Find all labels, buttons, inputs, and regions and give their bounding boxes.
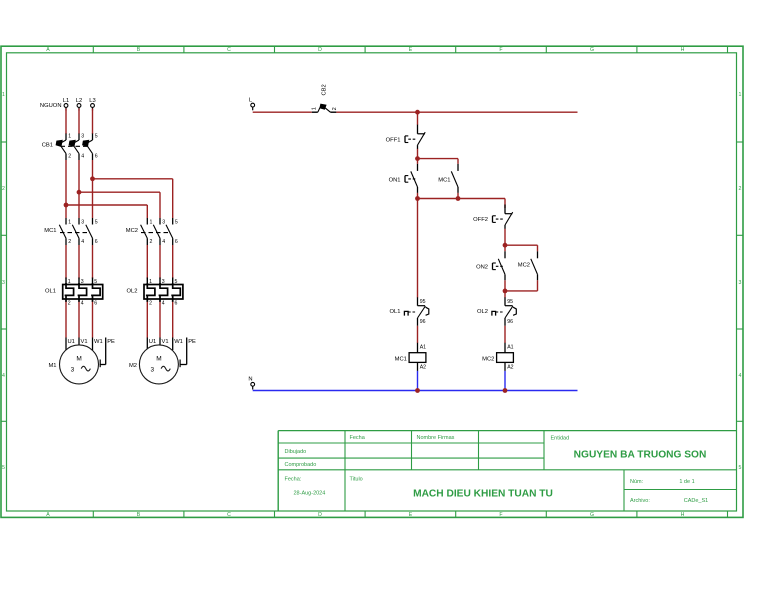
svg-text:5: 5 <box>739 465 742 471</box>
svg-text:MC2: MC2 <box>126 228 138 234</box>
wire L1 terminal to CB1 pin1 <box>65 109 67 135</box>
junction node N at coil MC2 <box>503 388 508 393</box>
contactor MC2 main contacts <box>126 218 178 245</box>
wire MC2 pin2 to OL2 pin1 <box>146 245 148 279</box>
svg-text:PE: PE <box>107 339 115 345</box>
svg-text:3: 3 <box>739 280 742 286</box>
svg-text:CB1: CB1 <box>42 143 53 149</box>
svg-text:1: 1 <box>2 92 5 98</box>
wire OFF1 to node A <box>417 149 419 159</box>
svg-text:W1: W1 <box>94 339 103 345</box>
junction node N at coil MC1 <box>415 388 420 393</box>
svg-text:PE: PE <box>188 339 196 345</box>
wire OL1 pin6 to motor M1 terminal <box>92 302 94 338</box>
svg-text:U1: U1 <box>68 339 75 345</box>
node C junction <box>503 243 508 248</box>
svg-text:2: 2 <box>2 186 5 192</box>
wire MC1 aux to node B rail <box>457 193 459 199</box>
svg-text:MACH DIEU KHIEN TUAN TU: MACH DIEU KHIEN TUAN TU <box>413 489 553 500</box>
svg-text:OL2: OL2 <box>477 309 488 315</box>
frame row numbers right band <box>739 92 742 471</box>
svg-text:5: 5 <box>175 220 178 226</box>
wire OL1 pin4 to motor M1 terminal <box>78 302 80 338</box>
node B junction at MC1 aux <box>456 196 461 201</box>
svg-text:5: 5 <box>2 465 5 471</box>
svg-text:4: 4 <box>739 373 742 379</box>
svg-text:A1: A1 <box>420 345 426 351</box>
motor M1 terminal stubs U1 V1 W1 <box>66 338 103 351</box>
drawing frame outer border <box>1 46 743 517</box>
auxiliary contact MC2 (NO holding) <box>518 251 538 280</box>
svg-text:F: F <box>499 47 502 53</box>
wire MC2 aux to node D <box>505 280 538 291</box>
wire MC2 pin6 to OL2 pin5 <box>172 245 174 279</box>
svg-text:OL2: OL2 <box>127 289 138 295</box>
wire OL2 pin4 to motor M2 terminal <box>159 302 161 338</box>
svg-text:M1: M1 <box>48 363 56 369</box>
svg-text:96: 96 <box>420 319 426 325</box>
svg-text:Fecha:: Fecha: <box>285 476 302 482</box>
title block label Titulo <box>350 476 363 482</box>
wire MC1 pin6 to OL1 pin5 <box>92 245 94 279</box>
frame column tick marks <box>93 46 727 517</box>
pushbutton OFF2 (NC) <box>473 205 513 229</box>
frame row numbers left band <box>2 92 5 471</box>
svg-text:E: E <box>409 512 413 518</box>
svg-text:L3: L3 <box>89 98 95 104</box>
motor M2 terminal stubs U1 V1 W1 <box>147 338 183 351</box>
svg-text:3: 3 <box>81 134 84 140</box>
motor M1 (3-phase) <box>48 345 98 384</box>
svg-text:6: 6 <box>94 300 97 306</box>
svg-text:OL1: OL1 <box>390 309 401 315</box>
svg-text:96: 96 <box>507 319 513 325</box>
wire OL2 pin2 to motor M2 terminal <box>146 302 148 338</box>
wire OL1 96 to coil MC1 A1 <box>417 326 419 343</box>
svg-text:1: 1 <box>68 134 71 140</box>
svg-text:4: 4 <box>81 239 84 245</box>
pushbutton ON2 (NO) <box>476 245 505 280</box>
thermal contact OL2 (NC) pins 95 96 <box>477 297 516 326</box>
svg-text:V1: V1 <box>81 339 88 345</box>
svg-text:G: G <box>590 47 594 53</box>
motor M2 (3-phase) <box>129 345 178 384</box>
svg-text:5: 5 <box>95 220 98 226</box>
wire CB1 pin4 down to MC1 pin3 <box>78 160 80 218</box>
svg-text:2: 2 <box>68 154 71 160</box>
svg-text:A: A <box>46 47 50 53</box>
wire L3 terminal to CB1 pin5 <box>92 109 94 135</box>
junction node L2 tap <box>77 190 82 195</box>
pushbutton ON1 (NO) <box>389 159 418 193</box>
svg-text:OFF1: OFF1 <box>386 137 401 143</box>
title block title MACH DIEU KHIEN TUAN TU <box>413 489 553 500</box>
overload relay OL2 <box>127 278 183 307</box>
svg-text:CB2: CB2 <box>322 84 328 95</box>
svg-text:Entidad: Entidad <box>551 435 570 441</box>
svg-text:OL1: OL1 <box>45 289 56 295</box>
svg-text:NGUON: NGUON <box>40 103 62 109</box>
frame row tick marks <box>1 142 743 421</box>
svg-text:4: 4 <box>2 373 5 379</box>
svg-text:3: 3 <box>71 367 75 374</box>
svg-text:D: D <box>318 47 322 53</box>
wire node B rail down to OFF2 <box>504 199 506 209</box>
wire node C to MC2 aux branch <box>505 245 538 251</box>
svg-text:MC1: MC1 <box>395 357 407 363</box>
svg-text:2: 2 <box>332 107 338 110</box>
svg-text:N: N <box>248 377 252 383</box>
svg-text:W1: W1 <box>174 339 183 345</box>
svg-text:1: 1 <box>739 92 742 98</box>
svg-text:L2: L2 <box>76 98 82 104</box>
junction node L3 tap <box>90 176 95 181</box>
svg-text:6: 6 <box>95 154 98 160</box>
svg-text:2: 2 <box>68 300 71 306</box>
wire MC1 pin2 to OL1 pin1 <box>65 245 67 279</box>
wire L2 terminal to CB1 pin3 <box>78 109 80 135</box>
title block file CADe_S1 <box>684 498 708 504</box>
wire MC1 pin4 to OL1 pin3 <box>78 245 80 279</box>
svg-text:3: 3 <box>81 220 84 226</box>
svg-text:A2: A2 <box>420 365 426 371</box>
svg-text:C: C <box>227 512 231 518</box>
coil MC1 pins A1 A2 <box>395 343 427 371</box>
svg-text:F: F <box>499 512 502 518</box>
svg-text:V1: V1 <box>162 339 169 345</box>
wire MC2 pin4 to OL2 pin3 <box>159 245 161 279</box>
terminal L1 <box>63 98 69 111</box>
title block sheet 1 de 1 <box>679 479 694 485</box>
svg-text:Archivo:: Archivo: <box>630 498 650 504</box>
svg-text:1: 1 <box>150 220 153 226</box>
svg-text:B: B <box>137 512 141 518</box>
coil MC2 pins A1 A2 <box>482 343 514 371</box>
terminal NGUON label <box>40 103 62 109</box>
svg-text:Comprobado: Comprobado <box>285 462 317 468</box>
svg-text:2: 2 <box>149 300 152 306</box>
svg-text:5: 5 <box>95 134 98 140</box>
svg-text:G: G <box>590 512 594 518</box>
wire CB1 pin6 down to MC1 pin5 <box>92 160 94 218</box>
svg-text:ON1: ON1 <box>389 177 401 183</box>
frame column letters top band <box>46 47 684 53</box>
drawing frame inner border <box>7 53 737 511</box>
svg-text:2: 2 <box>150 239 153 245</box>
wire coil MC1 A2 to N line <box>417 371 419 391</box>
svg-text:D: D <box>318 512 322 518</box>
svg-text:A1: A1 <box>507 345 513 351</box>
svg-text:A2: A2 <box>507 365 513 371</box>
junction node on L line <box>415 110 420 115</box>
wire coil MC2 A2 to N line <box>504 371 506 391</box>
svg-text:1: 1 <box>312 107 318 110</box>
frame column letters bottom band <box>46 512 684 518</box>
svg-text:ON2: ON2 <box>476 265 488 271</box>
svg-text:C: C <box>227 47 231 53</box>
svg-text:H: H <box>681 512 685 518</box>
wire OFF2 to node C <box>504 229 506 246</box>
svg-text:Nombre Firmas: Nombre Firmas <box>417 435 455 441</box>
title block label Fecha header <box>350 435 366 441</box>
svg-text:4: 4 <box>162 239 165 245</box>
svg-text:Dibujado: Dibujado <box>285 449 307 455</box>
terminal L2 <box>76 98 82 111</box>
svg-text:H: H <box>681 47 685 53</box>
svg-text:Titulo: Titulo <box>350 476 363 482</box>
wire tap L3 phase to MC2 pin5 <box>93 179 173 218</box>
svg-text:4: 4 <box>162 300 165 306</box>
node A junction <box>415 156 420 161</box>
svg-text:4: 4 <box>81 300 84 306</box>
svg-text:B: B <box>137 47 141 53</box>
wire tap L1 phase to MC2 pin1 <box>66 205 147 218</box>
wire OL2 pin6 to motor M2 terminal <box>172 302 174 338</box>
svg-text:4: 4 <box>81 154 84 160</box>
thermal contact OL1 (NC) pins 95 96 <box>390 297 429 326</box>
motor M2 protective earth PE wire <box>180 338 196 368</box>
title block label Comprobado <box>285 462 317 468</box>
svg-text:MC2: MC2 <box>482 357 494 363</box>
svg-text:Fecha: Fecha <box>350 435 366 441</box>
overload relay OL1 <box>45 278 103 307</box>
terminal L (control line) <box>249 98 255 111</box>
svg-text:MC2: MC2 <box>518 263 530 269</box>
junction node L1 tap <box>64 203 69 208</box>
wire OL1 pin2 to motor M1 terminal <box>65 302 67 338</box>
svg-text:1: 1 <box>68 220 71 226</box>
title block label Entidad <box>551 435 570 441</box>
wire tap L2 phase to MC2 pin3 <box>79 192 160 218</box>
title block date 28-Aug-2024 <box>294 491 326 497</box>
wire CB1 pin2 down to MC1 pin1 <box>65 160 67 218</box>
pushbutton OFF1 (NC) <box>386 125 426 149</box>
svg-text:M: M <box>156 356 161 363</box>
wire N line <box>253 390 578 392</box>
svg-text:E: E <box>409 47 413 53</box>
motor M1 protective earth PE wire <box>100 338 115 368</box>
title block label Num: <box>630 479 644 485</box>
svg-text:6: 6 <box>95 239 98 245</box>
title block label Fecha: <box>285 476 302 482</box>
node D junction <box>503 289 508 294</box>
svg-text:2: 2 <box>739 186 742 192</box>
auxiliary contact MC1 (NO holding) <box>438 164 458 193</box>
wire OL2 96 to coil MC2 A1 <box>504 326 506 343</box>
svg-text:OFF2: OFF2 <box>473 217 488 223</box>
title block entity name NGUYEN BA TRUONG SON <box>574 449 707 460</box>
svg-text:U1: U1 <box>149 339 156 345</box>
wire L line right segment <box>336 111 577 113</box>
title block label Nombre Firmas <box>417 435 455 441</box>
svg-text:Núm:: Núm: <box>630 479 644 485</box>
svg-text:L1: L1 <box>63 98 69 104</box>
terminal L3 <box>89 98 95 111</box>
title block grid lines <box>278 431 736 511</box>
wire node D to OL2 contact <box>504 291 506 298</box>
title block label Archivo: <box>630 498 650 504</box>
circuit breaker CB1 <box>42 134 98 161</box>
svg-text:28-Aug-2024: 28-Aug-2024 <box>294 491 326 497</box>
wire node A to MC1 aux branch <box>418 159 459 164</box>
wire ON2 to node D <box>504 280 506 291</box>
svg-text:95: 95 <box>420 299 426 305</box>
svg-text:M2: M2 <box>129 363 137 369</box>
svg-text:NGUYEN BA TRUONG SON: NGUYEN BA TRUONG SON <box>574 449 707 460</box>
svg-text:6: 6 <box>175 300 178 306</box>
terminal N (neutral) <box>248 377 254 390</box>
wire L line left segment <box>253 111 312 113</box>
svg-text:3: 3 <box>2 280 5 286</box>
svg-text:CADe_S1: CADe_S1 <box>684 498 708 504</box>
title block label Dibujado <box>285 449 307 455</box>
svg-text:95: 95 <box>507 299 513 305</box>
contactor MC1 main contacts <box>44 218 97 245</box>
svg-text:3: 3 <box>151 367 155 374</box>
circuit breaker CB2 <box>312 84 339 112</box>
svg-text:2: 2 <box>68 239 71 245</box>
wire L line down to OFF1 <box>417 112 419 125</box>
svg-text:A: A <box>46 512 50 518</box>
svg-text:3: 3 <box>162 220 165 226</box>
wire node B down to OL1 contact <box>417 199 419 298</box>
svg-text:1 de 1: 1 de 1 <box>679 479 694 485</box>
svg-text:MC1: MC1 <box>438 177 450 183</box>
svg-text:M: M <box>76 356 81 363</box>
wire ON1 to node B <box>417 193 419 199</box>
node B rail wire <box>418 198 506 200</box>
svg-text:MC1: MC1 <box>44 228 56 234</box>
node B junction at ON1 <box>415 196 420 201</box>
svg-text:6: 6 <box>175 239 178 245</box>
